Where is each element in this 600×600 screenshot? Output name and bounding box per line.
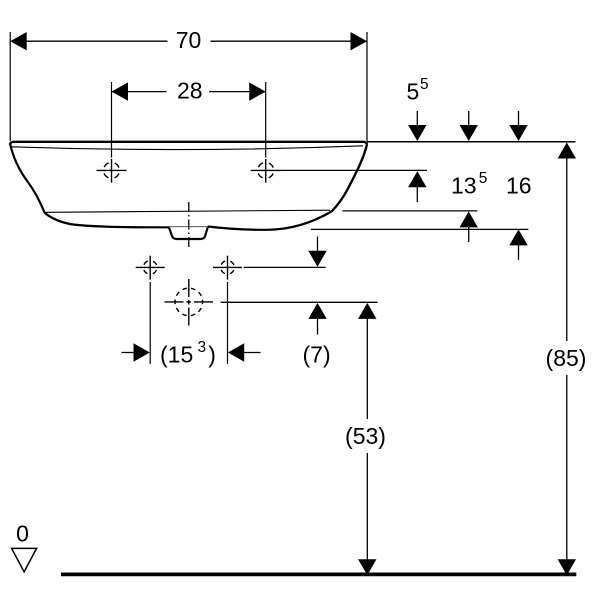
- svg-text:5: 5: [420, 76, 429, 93]
- svg-text:28: 28: [177, 78, 203, 104]
- dim 28: right arrowhead: [249, 82, 266, 100]
- svg-text:): ): [208, 342, 216, 368]
- dim (85): vertical line with arrows: [558, 143, 576, 576]
- basin top rim (thick): [10, 142, 367, 145]
- svg-text:(85): (85): [546, 345, 587, 371]
- 13.5 level reference line: [343, 210, 478, 212]
- dim 28: dimension line: [112, 91, 167, 93]
- svg-text:0: 0: [16, 521, 29, 547]
- dim 28: left arrowhead: [112, 82, 129, 100]
- dim 13.5: upper down arrow: [460, 111, 478, 141]
- dim (15.3): left extension line: [149, 282, 151, 364]
- dim (15.3): right arrow: [228, 343, 261, 361]
- dim (7): upper down arrow: [308, 237, 326, 267]
- rim level reference line (right): [367, 141, 575, 143]
- dim 5.5: upper down arrow: [408, 111, 426, 141]
- dim 16: upper down arrow: [509, 111, 527, 141]
- basin left edge: [10, 144, 45, 213]
- svg-text:(53): (53): [345, 423, 386, 449]
- svg-text:16: 16: [506, 173, 532, 199]
- right tap hole crosshair: [251, 159, 281, 183]
- datum triangle symbol: [12, 548, 37, 572]
- dim 13.5: lower up arrow: [460, 211, 478, 242]
- svg-text:5: 5: [407, 79, 420, 105]
- dim 70: left arrowhead: [10, 32, 27, 50]
- left tap hole crosshair: [97, 159, 127, 183]
- basin inner rim line (thin): [11, 146, 364, 150]
- dim (7): lower up arrow: [308, 303, 326, 335]
- svg-text:3: 3: [198, 339, 207, 356]
- dim 70: right arrowhead: [351, 32, 368, 50]
- dim 5.5: lower up arrow: [408, 171, 426, 202]
- drain hole circle: [165, 279, 214, 326]
- floor line: [61, 573, 576, 577]
- dim 70: left extension line: [9, 32, 11, 141]
- dim 28: right extension line: [265, 82, 267, 158]
- tap hole level reference line: [281, 169, 427, 171]
- basin bottom line behind siphon cover (thin): [169, 226, 208, 228]
- dim 70: right extension line: [366, 32, 368, 141]
- left fixing hole crosshair: [136, 256, 165, 280]
- drain level reference line: [221, 301, 378, 303]
- drain centerline through siphon cover: [188, 202, 190, 247]
- svg-text:70: 70: [176, 27, 202, 53]
- dim 70: dimension line: [10, 40, 167, 42]
- dim (15.3): left arrow: [122, 343, 150, 361]
- dim 16: lower up arrow: [509, 229, 527, 260]
- 16 level reference line: [311, 228, 528, 230]
- svg-text:5: 5: [479, 170, 488, 187]
- dim (53): vertical line with arrows: [358, 303, 376, 575]
- basin inner bottom line (thin): [46, 210, 330, 212]
- dim (15.3): right extension line: [227, 282, 229, 364]
- basin bottom-left edge: [45, 213, 170, 228]
- svg-text:(15: (15: [160, 342, 193, 368]
- basin right edge: [332, 145, 367, 212]
- fixing holes level reference line: [244, 266, 326, 268]
- svg-text:(7): (7): [303, 342, 331, 368]
- right fixing hole crosshair: [213, 256, 242, 280]
- svg-text:13: 13: [451, 173, 477, 199]
- siphon cover: [169, 227, 208, 239]
- dim 28: left extension line: [111, 82, 113, 158]
- basin bottom-right edge: [208, 212, 332, 230]
